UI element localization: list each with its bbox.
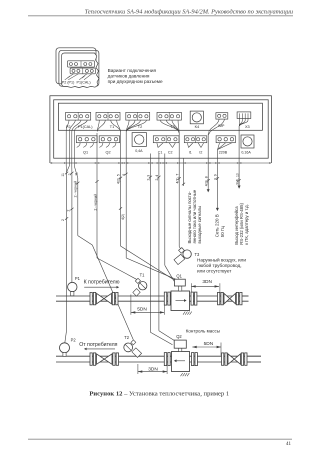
svg-text:Наружный воздух, или: Наружный воздух, или [197,256,246,262]
svg-text:I1: I1 [189,150,192,154]
svg-text:Q2: Q2 [176,334,182,339]
svg-text:P2: P2 [71,337,77,342]
svg-text:T1: T1 [110,125,114,129]
svg-text:при двухрядном разъеме: при двухрядном разъеме [108,79,163,84]
svg-text:выходные сигналы: выходные сигналы [197,206,202,244]
svg-text:Теплосчетчики SA-94 модификаци: Теплосчетчики SA-94 модификации SA-94/2М… [85,9,293,16]
svg-text:T2: T2 [138,125,142,129]
svg-text:Q2: Q2 [106,151,111,155]
svg-text:3, 9: 3, 9 [214,174,218,180]
svg-text:C1: C1 [158,150,163,154]
svg-text:3DN: 3DN [148,367,158,373]
svg-text:4(2), 7: 4(2), 7 [176,174,180,184]
svg-text:2: 2 [66,210,70,212]
svg-text:0,16А: 0,16А [241,150,251,154]
svg-text:C2: C2 [168,150,173,154]
svg-text:K4: K4 [195,125,200,129]
svg-text:К потребителю: К потребителю [84,280,120,286]
svg-text:Контроль массы: Контроль массы [186,328,220,333]
svg-text:T1: T1 [140,272,146,277]
svg-text:11: 11 [61,173,65,177]
svg-text:0,4A: 0,4A [135,149,143,153]
svg-text:или отсутствует: или отсутствует [197,269,232,274]
svg-text:P2 (P1): P2 (P1) [62,81,75,85]
svg-text:Вариант подключения: Вариант подключения [108,68,157,73]
svg-text:Q1: Q1 [83,151,88,155]
svg-text:P1: P1 [75,276,81,281]
svg-text:4(2): 4(2) [121,214,125,220]
svg-text:2, 4: 2, 4 [155,175,159,181]
svg-text:220В: 220В [219,151,228,155]
svg-text:любой трубопровод,: любой трубопровод, [197,262,242,268]
svg-text:50 Гц: 50 Гц [220,226,225,238]
svg-text:Рисунок 12 – Установка теплосч: Рисунок 12 – Установка теплосчетчика, пр… [89,391,229,398]
svg-text:T2: T2 [124,335,130,340]
svg-text:4(2), 5: 4(2), 5 [117,174,121,184]
svg-text:P1(CAL): P1(CAL) [77,81,91,85]
svg-text:41: 41 [286,442,292,447]
svg-text:5DN: 5DN [204,341,214,347]
svg-text:2, 3: 2, 3 [146,175,150,181]
svg-text:2 - черный: 2 - черный [93,194,97,211]
svg-text:5DN: 5DN [137,307,147,313]
svg-text:X3: X3 [245,125,250,129]
svg-text:2 - черный: 2 - черный [73,181,77,198]
svg-text:3(4), 10: 3(4), 10 [235,173,239,185]
svg-text:P1(CAL): P1(CAL) [78,125,93,129]
svg-text:11: 11 [75,172,79,176]
svg-text:Q1: Q1 [176,273,182,278]
svg-text:I2: I2 [199,150,202,154]
svg-text:2: 2 [61,219,65,221]
svg-text:6: 6 [122,174,126,176]
svg-text:3DN: 3DN [202,279,212,285]
svg-text:От потребителя: От потребителя [79,342,117,348]
svg-text:к ПК, адаптеру и т.д.: к ПК, адаптеру и т.д. [244,204,249,245]
svg-text:2: 2 [68,173,72,175]
svg-text:датчиков давления: датчиков давления [108,73,150,78]
svg-text:4(2), 8: 4(2), 8 [204,176,208,186]
